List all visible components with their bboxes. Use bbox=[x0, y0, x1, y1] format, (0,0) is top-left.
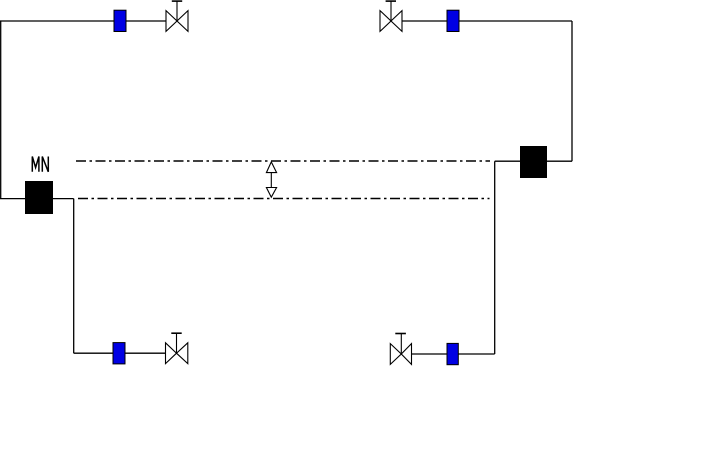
meter M1 (blue fitting, top-left) bbox=[114, 10, 126, 31]
wire: left vertical riser bbox=[0, 21, 2, 199]
label MN bbox=[32, 157, 48, 172]
dimension arrow (double-headed, between reference lines) bbox=[266, 162, 276, 197]
wire: top-left supply pipe bbox=[0, 20, 166, 22]
valve V1 (top-left gate valve) bbox=[166, 1, 188, 31]
junction box MN (left black square) bbox=[25, 181, 53, 214]
reference line lower (dash-dot) bbox=[78, 198, 490, 200]
valve V3 (bottom-left gate valve) bbox=[166, 333, 188, 363]
wire: top-right horizontal bbox=[402, 20, 572, 22]
wire: right horizontal into box bbox=[547, 160, 572, 162]
wire: right vertical riser bbox=[571, 21, 573, 161]
wire: bottom-right horizontal bbox=[412, 353, 495, 355]
wire: left horizontal into MN box bbox=[0, 198, 25, 200]
meter M2 (blue fitting, top-right) bbox=[447, 10, 459, 31]
wire: bottom-left horizontal bbox=[74, 352, 166, 354]
valve V2 (top-right gate valve) bbox=[380, 1, 402, 31]
reference line upper (dash-dot) bbox=[76, 160, 490, 162]
meter M4 (blue fitting, bottom-right) bbox=[447, 343, 458, 364]
meter M3 (blue fitting, bottom-left) bbox=[113, 343, 125, 364]
valve V4 (bottom-right gate valve) bbox=[390, 334, 411, 365]
wire: right drop to bottom branch bbox=[494, 161, 496, 354]
wire: MN box to corner bbox=[53, 198, 74, 200]
wire: left drop to bottom branch bbox=[73, 199, 75, 354]
junction box right (black square) bbox=[520, 146, 547, 178]
wire: box to corner bbox=[495, 160, 520, 162]
